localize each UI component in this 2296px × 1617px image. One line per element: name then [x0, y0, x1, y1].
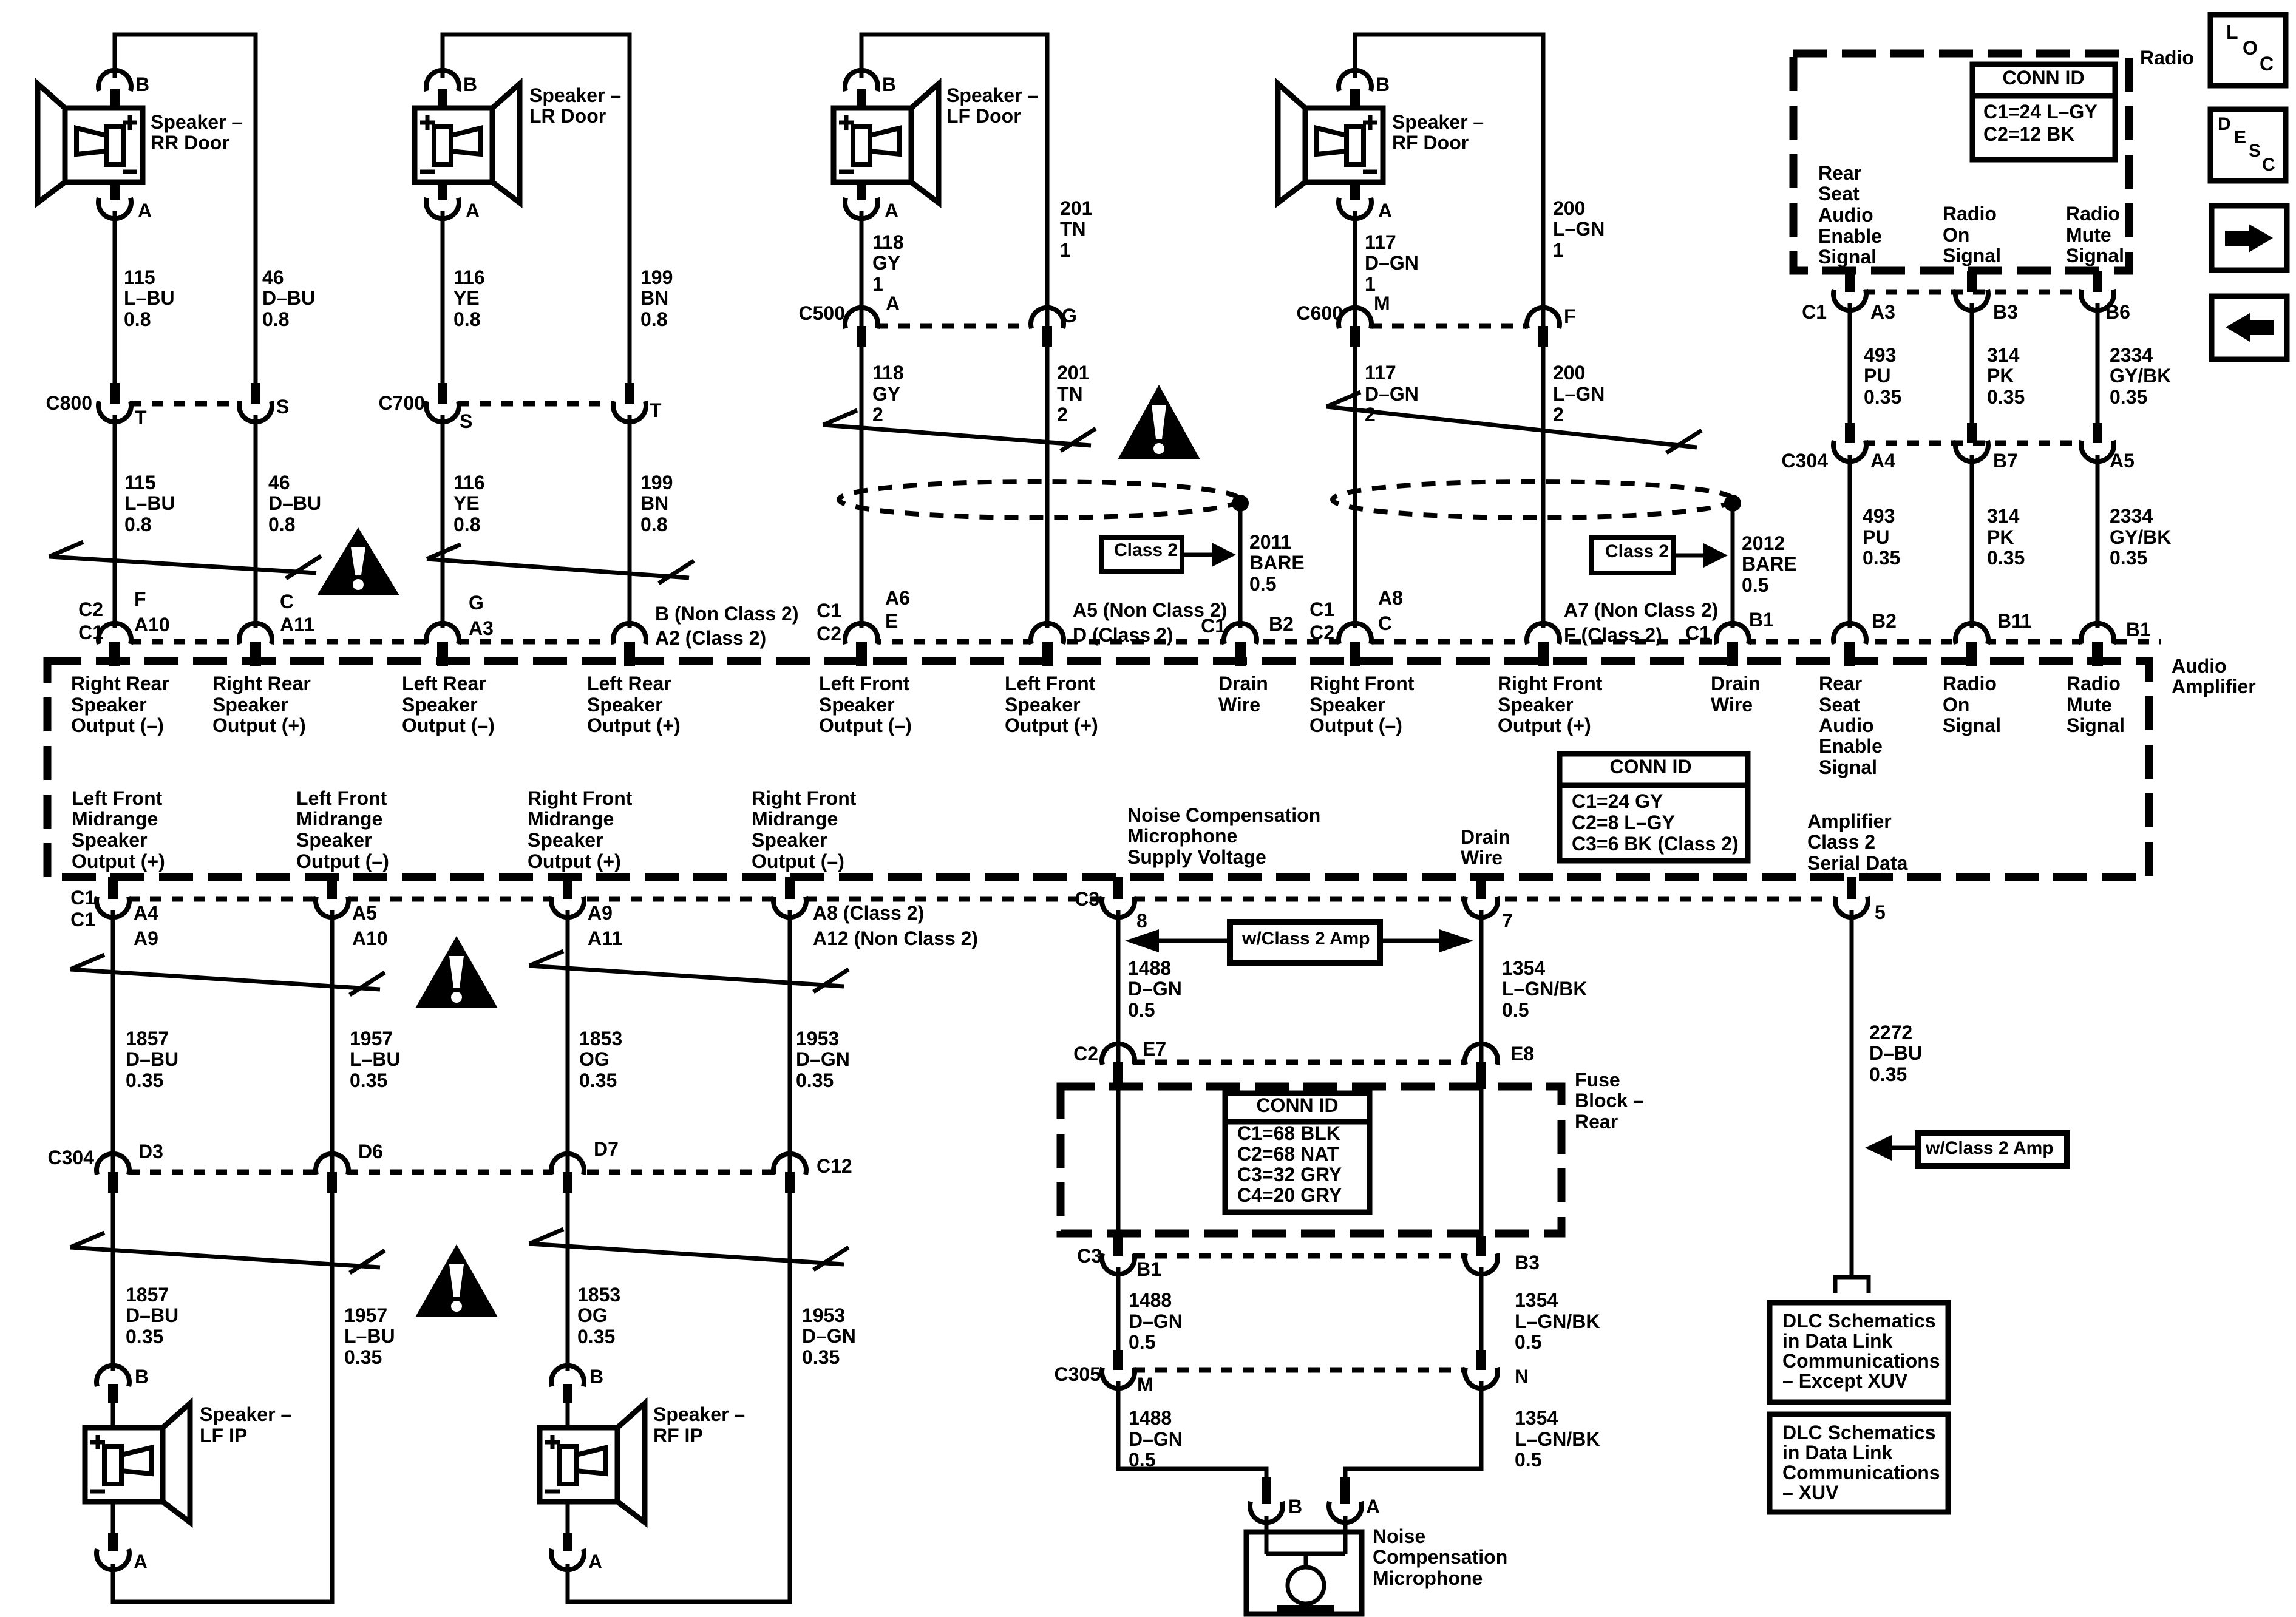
svg-text:0.35: 0.35: [2110, 386, 2147, 408]
svg-text:LF Door: LF Door: [946, 105, 1021, 127]
svg-text:1857: 1857: [126, 1028, 169, 1049]
svg-text:A4: A4: [134, 902, 158, 924]
svg-text:C1: C1: [1685, 622, 1710, 644]
svg-text:RF IP: RF IP: [653, 1425, 703, 1446]
svg-text:D–GN: D–GN: [1129, 1310, 1183, 1332]
connector B of speaker LF IP: [97, 1366, 129, 1386]
svg-text:0.8: 0.8: [268, 514, 295, 535]
svg-text:0.35: 0.35: [796, 1070, 834, 1091]
svg-text:CONN ID: CONN ID: [1256, 1094, 1338, 1116]
wire: [111, 910, 115, 1161]
svg-text:0.5: 0.5: [1515, 1331, 1541, 1353]
svg-text:D6: D6: [358, 1141, 383, 1162]
svg-text:Output (–): Output (–): [71, 714, 164, 736]
svg-text:A10: A10: [134, 614, 170, 636]
svg-text:C2: C2: [1309, 622, 1334, 643]
svg-text:G: G: [1062, 305, 1077, 327]
wire tip: [111, 1158, 115, 1172]
DLC Schematics box 1: [1770, 1303, 1948, 1402]
loop wire LF IP: [113, 1193, 332, 1602]
twisted-pair arrow RF: [1326, 392, 1702, 453]
svg-text:B: B: [135, 1366, 149, 1388]
svg-text:Drain: Drain: [1218, 673, 1268, 694]
shield ellipse right: [1333, 481, 1733, 518]
svg-text:D3: D3: [138, 1141, 163, 1162]
svg-text:D (Class 2): D (Class 2): [1073, 624, 1173, 646]
twisted-pair arrow midrange RF: [529, 951, 849, 992]
svg-text:Seat: Seat: [1818, 183, 1860, 205]
svg-text:Speaker: Speaker: [402, 694, 478, 716]
loop wire RR Door: [115, 35, 256, 384]
svg-text:A5: A5: [2110, 450, 2135, 472]
svg-text:C2=68 NAT: C2=68 NAT: [1237, 1143, 1339, 1165]
svg-text:1354: 1354: [1515, 1289, 1558, 1311]
wire: [1116, 1089, 1121, 1236]
svg-text:1488: 1488: [1129, 1407, 1172, 1429]
svg-text:Radio: Radio: [2067, 673, 2121, 694]
svg-text:Speaker: Speaker: [1005, 694, 1081, 716]
DLC Schematics box 2: [1770, 1414, 1948, 1512]
svg-text:B: B: [1288, 1496, 1302, 1517]
LOC icon: [2210, 15, 2286, 86]
svg-text:RF Door: RF Door: [1392, 132, 1469, 154]
svg-text:C304: C304: [48, 1147, 95, 1168]
svg-text:Speaker: Speaker: [212, 694, 288, 716]
svg-text:C12: C12: [817, 1155, 852, 1177]
svg-text:LR Door: LR Door: [529, 105, 606, 127]
svg-text:199: 199: [640, 472, 673, 493]
warning symbol 4: [415, 1244, 498, 1317]
svg-text:DLC Schematics: DLC Schematics: [1782, 1422, 1936, 1443]
svg-text:Speaker: Speaker: [72, 829, 148, 851]
svg-text:D–BU: D–BU: [268, 492, 321, 514]
wire: [1116, 910, 1121, 1051]
loop wire LF Door: [861, 35, 1047, 312]
svg-text:Rear: Rear: [1575, 1111, 1618, 1133]
svg-text:0.5: 0.5: [1515, 1449, 1541, 1471]
svg-text:A: A: [466, 200, 480, 222]
svg-text:CONN ID: CONN ID: [1609, 756, 1691, 778]
svg-text:Mute: Mute: [2067, 694, 2112, 716]
svg-text:0.35: 0.35: [802, 1346, 840, 1368]
twisted-pair arrow LR: [427, 544, 694, 583]
svg-text:On: On: [1943, 694, 1969, 716]
wire to RF IP speaker: [566, 1193, 570, 1371]
svg-text:C3: C3: [1077, 1245, 1102, 1267]
svg-text:Left Front: Left Front: [1005, 673, 1096, 694]
svg-text:C3: C3: [1075, 888, 1099, 910]
svg-text:B: B: [589, 1366, 603, 1388]
wire: [1850, 910, 1854, 1277]
svg-text:Supply Voltage: Supply Voltage: [1127, 846, 1266, 868]
DESC icon: [2210, 109, 2286, 181]
svg-text:A9: A9: [134, 927, 158, 949]
svg-text:Drain: Drain: [1711, 673, 1761, 694]
svg-text:Output (+): Output (+): [1498, 714, 1591, 736]
svg-text:Output (+): Output (+): [212, 714, 306, 736]
warning symbol 2: [1118, 385, 1200, 459]
wire: [254, 415, 258, 628]
svg-text:O: O: [2243, 37, 2258, 59]
svg-text:L–BU: L–BU: [124, 492, 175, 514]
svg-text:493: 493: [1863, 505, 1895, 527]
svg-text:Left Front: Left Front: [296, 787, 387, 809]
svg-text:5: 5: [1875, 901, 1886, 923]
wire: [2096, 455, 2100, 628]
svg-text:Seat: Seat: [1819, 694, 1860, 716]
w/Class 2 Amp tag (serial): [1865, 1133, 2067, 1166]
svg-text:C1: C1: [1309, 598, 1334, 620]
connector line: [1370, 324, 1528, 329]
svg-text:C: C: [2262, 155, 2275, 175]
svg-text:B1: B1: [1749, 609, 1774, 631]
wire: [2096, 303, 2100, 425]
svg-text:2: 2: [1365, 404, 1376, 425]
svg-text:Right Rear: Right Rear: [71, 673, 169, 694]
svg-text:C2: C2: [817, 623, 841, 645]
svg-text:C3=32 GRY: C3=32 GRY: [1237, 1164, 1342, 1185]
svg-text:115: 115: [124, 472, 156, 493]
svg-text:2: 2: [1553, 404, 1564, 425]
svg-text:Speaker –: Speaker –: [1392, 111, 1484, 133]
svg-text:Speaker: Speaker: [819, 694, 895, 716]
svg-text:E: E: [885, 610, 898, 632]
svg-text:0.35: 0.35: [1863, 547, 1900, 569]
svg-text:D–BU: D–BU: [126, 1048, 178, 1070]
wire: [1479, 1267, 1484, 1350]
drain wire junction dot 2: [1724, 495, 1741, 512]
svg-text:A: A: [1378, 200, 1392, 222]
svg-text:1: 1: [1060, 239, 1071, 261]
connector B of speaker LF Door: [845, 70, 878, 91]
svg-text:C2: C2: [1073, 1043, 1098, 1065]
svg-text:Wire: Wire: [1218, 694, 1260, 716]
connector line: [130, 401, 242, 407]
wire: [566, 1403, 570, 1428]
svg-text:201: 201: [1057, 362, 1089, 384]
svg-text:F: F: [134, 588, 146, 610]
svg-text:0.5: 0.5: [1128, 999, 1155, 1021]
connector B of speaker RF IP: [551, 1366, 584, 1386]
svg-text:2272: 2272: [1869, 1022, 1912, 1043]
wire below A RF Door: [1353, 211, 1357, 311]
speaker LF Door: [834, 84, 939, 203]
svg-text:A11: A11: [280, 614, 314, 636]
svg-text:A7 (Non Class 2): A7 (Non Class 2): [1564, 599, 1718, 621]
svg-text:C305: C305: [1055, 1363, 1101, 1385]
svg-text:C1=68 BLK: C1=68 BLK: [1237, 1122, 1340, 1144]
svg-text:0.35: 0.35: [2110, 547, 2147, 569]
svg-text:DLC Schematics: DLC Schematics: [1782, 1310, 1936, 1332]
svg-text:GY/BK: GY/BK: [2110, 365, 2171, 387]
wire below A RR Door: [113, 211, 117, 388]
svg-text:BARE: BARE: [1742, 553, 1797, 575]
svg-text:0.8: 0.8: [453, 514, 480, 535]
svg-text:0.35: 0.35: [1987, 386, 2025, 408]
Class 2 tag 1: [1101, 538, 1236, 572]
svg-text:Right Front: Right Front: [752, 787, 857, 809]
svg-text:B2: B2: [1872, 610, 1897, 632]
svg-text:TN: TN: [1057, 383, 1083, 405]
svg-text:CONN ID: CONN ID: [2002, 67, 2084, 89]
svg-text:Audio: Audio: [2172, 655, 2227, 677]
wire: [330, 910, 335, 1161]
svg-text:Signal: Signal: [1943, 245, 2001, 266]
wire tip: [566, 1158, 570, 1172]
wire tip: [1045, 311, 1050, 326]
svg-text:Speaker: Speaker: [1498, 694, 1574, 716]
svg-text:Compensation: Compensation: [1373, 1546, 1507, 1568]
svg-text:1: 1: [1365, 273, 1376, 295]
svg-text:GY: GY: [872, 252, 900, 274]
svg-text:117: 117: [1365, 362, 1396, 384]
svg-text:Speaker: Speaker: [1309, 694, 1385, 716]
svg-text:S: S: [460, 410, 472, 432]
connector line: [1864, 441, 2082, 446]
twisted-pair arrow midrange LF 2: [70, 1233, 385, 1273]
right arrow icon: [2212, 206, 2287, 270]
svg-text:A3: A3: [1870, 301, 1895, 323]
loop wire RF Door: [1355, 35, 1543, 312]
svg-text:2: 2: [872, 404, 883, 425]
svg-text:Speaker: Speaker: [296, 829, 372, 851]
svg-text:A: A: [885, 200, 898, 222]
svg-text:A: A: [134, 1551, 148, 1573]
svg-text:Right Rear: Right Rear: [212, 673, 311, 694]
left arrow icon: [2212, 296, 2287, 359]
CONN ID table (Fuse Block): [1225, 1093, 1370, 1212]
svg-text:On: On: [1943, 224, 1969, 246]
svg-text:D–BU: D–BU: [126, 1304, 178, 1326]
Audio Amplifier box: [47, 661, 2149, 877]
svg-text:0.35: 0.35: [579, 1070, 617, 1091]
connector line: [128, 1170, 806, 1175]
wire tip: [1479, 1048, 1484, 1062]
svg-text:Speaker –: Speaker –: [653, 1403, 745, 1425]
svg-text:w/Class 2 Amp: w/Class 2 Amp: [1241, 929, 1370, 949]
shield ellipse left: [839, 481, 1240, 518]
svg-text:Midrange: Midrange: [296, 808, 382, 830]
svg-text:314: 314: [1987, 505, 2020, 527]
Fuse Block - Rear box: [1061, 1086, 1561, 1233]
svg-text:A: A: [588, 1551, 602, 1573]
svg-text:0.5: 0.5: [1502, 999, 1529, 1021]
connector A of speaker RF Door: [1350, 182, 1360, 200]
wire: [1848, 303, 1852, 425]
svg-text:Output (+): Output (+): [528, 850, 621, 872]
svg-text:Signal: Signal: [1819, 756, 1877, 778]
svg-text:C1: C1: [1201, 615, 1226, 637]
svg-text:C1: C1: [70, 909, 95, 931]
Radio box: [1793, 53, 2129, 271]
svg-text:A11: A11: [588, 927, 622, 949]
svg-text:Rear: Rear: [1818, 162, 1861, 184]
svg-text:Signal: Signal: [2066, 245, 2124, 266]
connector A of speaker RR Door: [110, 182, 120, 200]
svg-text:C2=8 L–GY: C2=8 L–GY: [1572, 812, 1675, 833]
svg-text:L–GN: L–GN: [1553, 218, 1605, 240]
wire: [1970, 303, 1974, 425]
svg-text:0.35: 0.35: [126, 1326, 163, 1347]
svg-text:A: A: [138, 200, 152, 222]
svg-text:A9: A9: [588, 902, 613, 924]
svg-text:OG: OG: [577, 1304, 608, 1326]
svg-text:A12 (Non Class 2): A12 (Non Class 2): [813, 927, 978, 949]
wire: [1848, 455, 1852, 628]
svg-text:D: D: [2218, 114, 2231, 134]
svg-text:A3: A3: [469, 617, 494, 639]
svg-text:Amplifier: Amplifier: [1807, 810, 1892, 832]
svg-text:200: 200: [1553, 197, 1585, 219]
svg-text:D–BU: D–BU: [262, 287, 315, 309]
svg-text:A: A: [886, 293, 900, 314]
svg-text:BN: BN: [640, 287, 668, 309]
svg-text:C304: C304: [1782, 450, 1829, 472]
connector line: [1864, 290, 2082, 295]
speaker RR Door: [38, 84, 143, 203]
svg-text:Microphone: Microphone: [1127, 825, 1237, 847]
speaker RF IP: [540, 1403, 645, 1522]
svg-text:Output (–): Output (–): [296, 850, 389, 872]
svg-text:F: F: [1564, 305, 1576, 327]
svg-text:– XUV: – XUV: [1782, 1482, 1839, 1503]
twisted-pair arrow LF: [823, 410, 1096, 451]
svg-text:PK: PK: [1987, 526, 2014, 548]
svg-text:Radio: Radio: [1943, 673, 1997, 694]
wire: [628, 415, 632, 628]
svg-text:199: 199: [640, 266, 673, 288]
svg-text:0.35: 0.35: [1869, 1063, 1907, 1085]
svg-text:0.35: 0.35: [350, 1070, 387, 1091]
svg-text:A: A: [1366, 1496, 1380, 1517]
svg-text:Noise Compensation: Noise Compensation: [1127, 804, 1320, 826]
svg-text:118: 118: [872, 362, 904, 384]
svg-text:Block –: Block –: [1575, 1090, 1644, 1111]
svg-text:0.8: 0.8: [124, 308, 151, 330]
svg-text:PU: PU: [1863, 526, 1889, 548]
connector A of microphone: [1340, 1477, 1350, 1504]
speaker LF IP: [85, 1403, 190, 1522]
svg-text:118: 118: [872, 231, 904, 253]
connector line: [128, 897, 1867, 902]
svg-text:C: C: [2260, 53, 2274, 75]
svg-text:0.8: 0.8: [453, 308, 480, 330]
svg-text:0.5: 0.5: [1249, 573, 1276, 595]
svg-text:0.8: 0.8: [262, 308, 289, 330]
svg-text:B2: B2: [1269, 613, 1294, 635]
svg-text:115: 115: [124, 266, 155, 288]
svg-text:1853: 1853: [579, 1028, 622, 1049]
svg-text:2334: 2334: [2110, 344, 2153, 366]
svg-text:A10: A10: [352, 927, 388, 949]
connector line: [130, 639, 631, 645]
wire: [113, 415, 117, 628]
svg-text:PK: PK: [1987, 365, 2014, 387]
svg-text:2011: 2011: [1249, 531, 1291, 553]
svg-text:C: C: [1378, 612, 1392, 634]
wire to microphone A: [1345, 1381, 1481, 1477]
svg-text:Audio: Audio: [1819, 714, 1874, 736]
svg-text:Audio: Audio: [1818, 204, 1873, 226]
svg-text:C3=6 BK (Class 2): C3=6 BK (Class 2): [1572, 833, 1739, 855]
wire tip: [1541, 311, 1546, 326]
svg-text:Output (+): Output (+): [72, 850, 165, 872]
svg-text:Signal: Signal: [2067, 714, 2125, 736]
svg-text:B1: B1: [1136, 1258, 1161, 1280]
wire tip: [788, 1158, 792, 1172]
twisted-pair arrow RR/LR: [49, 542, 321, 578]
loop wire LR Door: [443, 35, 630, 384]
svg-text:YE: YE: [453, 287, 480, 309]
wire: [1353, 347, 1357, 628]
wire below A LF Door: [860, 211, 864, 311]
svg-text:C500: C500: [799, 302, 846, 324]
svg-text:2334: 2334: [2110, 505, 2153, 527]
speaker LR Door: [415, 84, 520, 203]
svg-text:2: 2: [1057, 404, 1068, 425]
svg-text:Amplifier: Amplifier: [2172, 676, 2256, 697]
svg-text:B (Non Class 2): B (Non Class 2): [655, 603, 798, 625]
svg-text:T: T: [135, 407, 147, 429]
svg-text:Mute: Mute: [2066, 224, 2111, 246]
svg-text:B3: B3: [1993, 301, 2018, 323]
svg-text:C1=24 L–GY: C1=24 L–GY: [1983, 101, 2097, 123]
svg-text:200: 200: [1553, 362, 1585, 384]
connector B of speaker RF Door: [1339, 70, 1371, 91]
wire: [566, 910, 570, 1161]
svg-text:Communications: Communications: [1782, 1462, 1940, 1483]
svg-text:L–BU: L–BU: [344, 1325, 395, 1347]
svg-text:1853: 1853: [577, 1284, 620, 1306]
svg-text:A5: A5: [352, 902, 377, 924]
svg-text:C800: C800: [46, 392, 93, 414]
svg-text:L–GN/BK: L–GN/BK: [1515, 1310, 1600, 1332]
svg-text:Radio: Radio: [2140, 47, 2194, 69]
svg-text:TN: TN: [1060, 218, 1086, 240]
warning symbol 1: [317, 527, 399, 595]
svg-text:C600: C600: [1297, 302, 1343, 324]
svg-text:1957: 1957: [344, 1304, 387, 1326]
svg-text:Microphone: Microphone: [1373, 1567, 1483, 1589]
wire: [1265, 1516, 1269, 1533]
svg-text:Radio: Radio: [1943, 203, 1997, 225]
svg-text:Left Front: Left Front: [819, 673, 910, 694]
svg-text:– Except XUV: – Except XUV: [1782, 1370, 1908, 1392]
wire: [1045, 347, 1050, 628]
svg-text:Enable: Enable: [1819, 735, 1883, 757]
svg-text:C1=24 GY: C1=24 GY: [1572, 790, 1663, 812]
Class 2 tag 2: [1592, 538, 1728, 573]
svg-text:0.35: 0.35: [1864, 386, 1901, 408]
svg-text:Serial Data: Serial Data: [1807, 852, 1908, 874]
svg-text:1857: 1857: [126, 1284, 169, 1306]
svg-text:D–GN: D–GN: [1129, 1428, 1183, 1450]
twisted-pair arrow midrange LF: [70, 955, 385, 995]
svg-text:N: N: [1515, 1366, 1529, 1388]
connector line: [1133, 1060, 1465, 1065]
loop wire RF IP: [568, 1193, 790, 1602]
svg-text:116: 116: [453, 266, 485, 288]
svg-text:Output (–): Output (–): [752, 850, 844, 872]
svg-text:Fuse: Fuse: [1575, 1069, 1620, 1091]
svg-text:A8 (Class 2): A8 (Class 2): [813, 902, 924, 924]
wire: [788, 910, 792, 1161]
svg-text:GY: GY: [872, 383, 900, 405]
svg-text:C2=12 BK: C2=12 BK: [1983, 123, 2074, 145]
svg-text:Noise: Noise: [1373, 1525, 1425, 1547]
svg-text:7: 7: [1502, 910, 1513, 932]
svg-text:0.35: 0.35: [577, 1326, 615, 1347]
